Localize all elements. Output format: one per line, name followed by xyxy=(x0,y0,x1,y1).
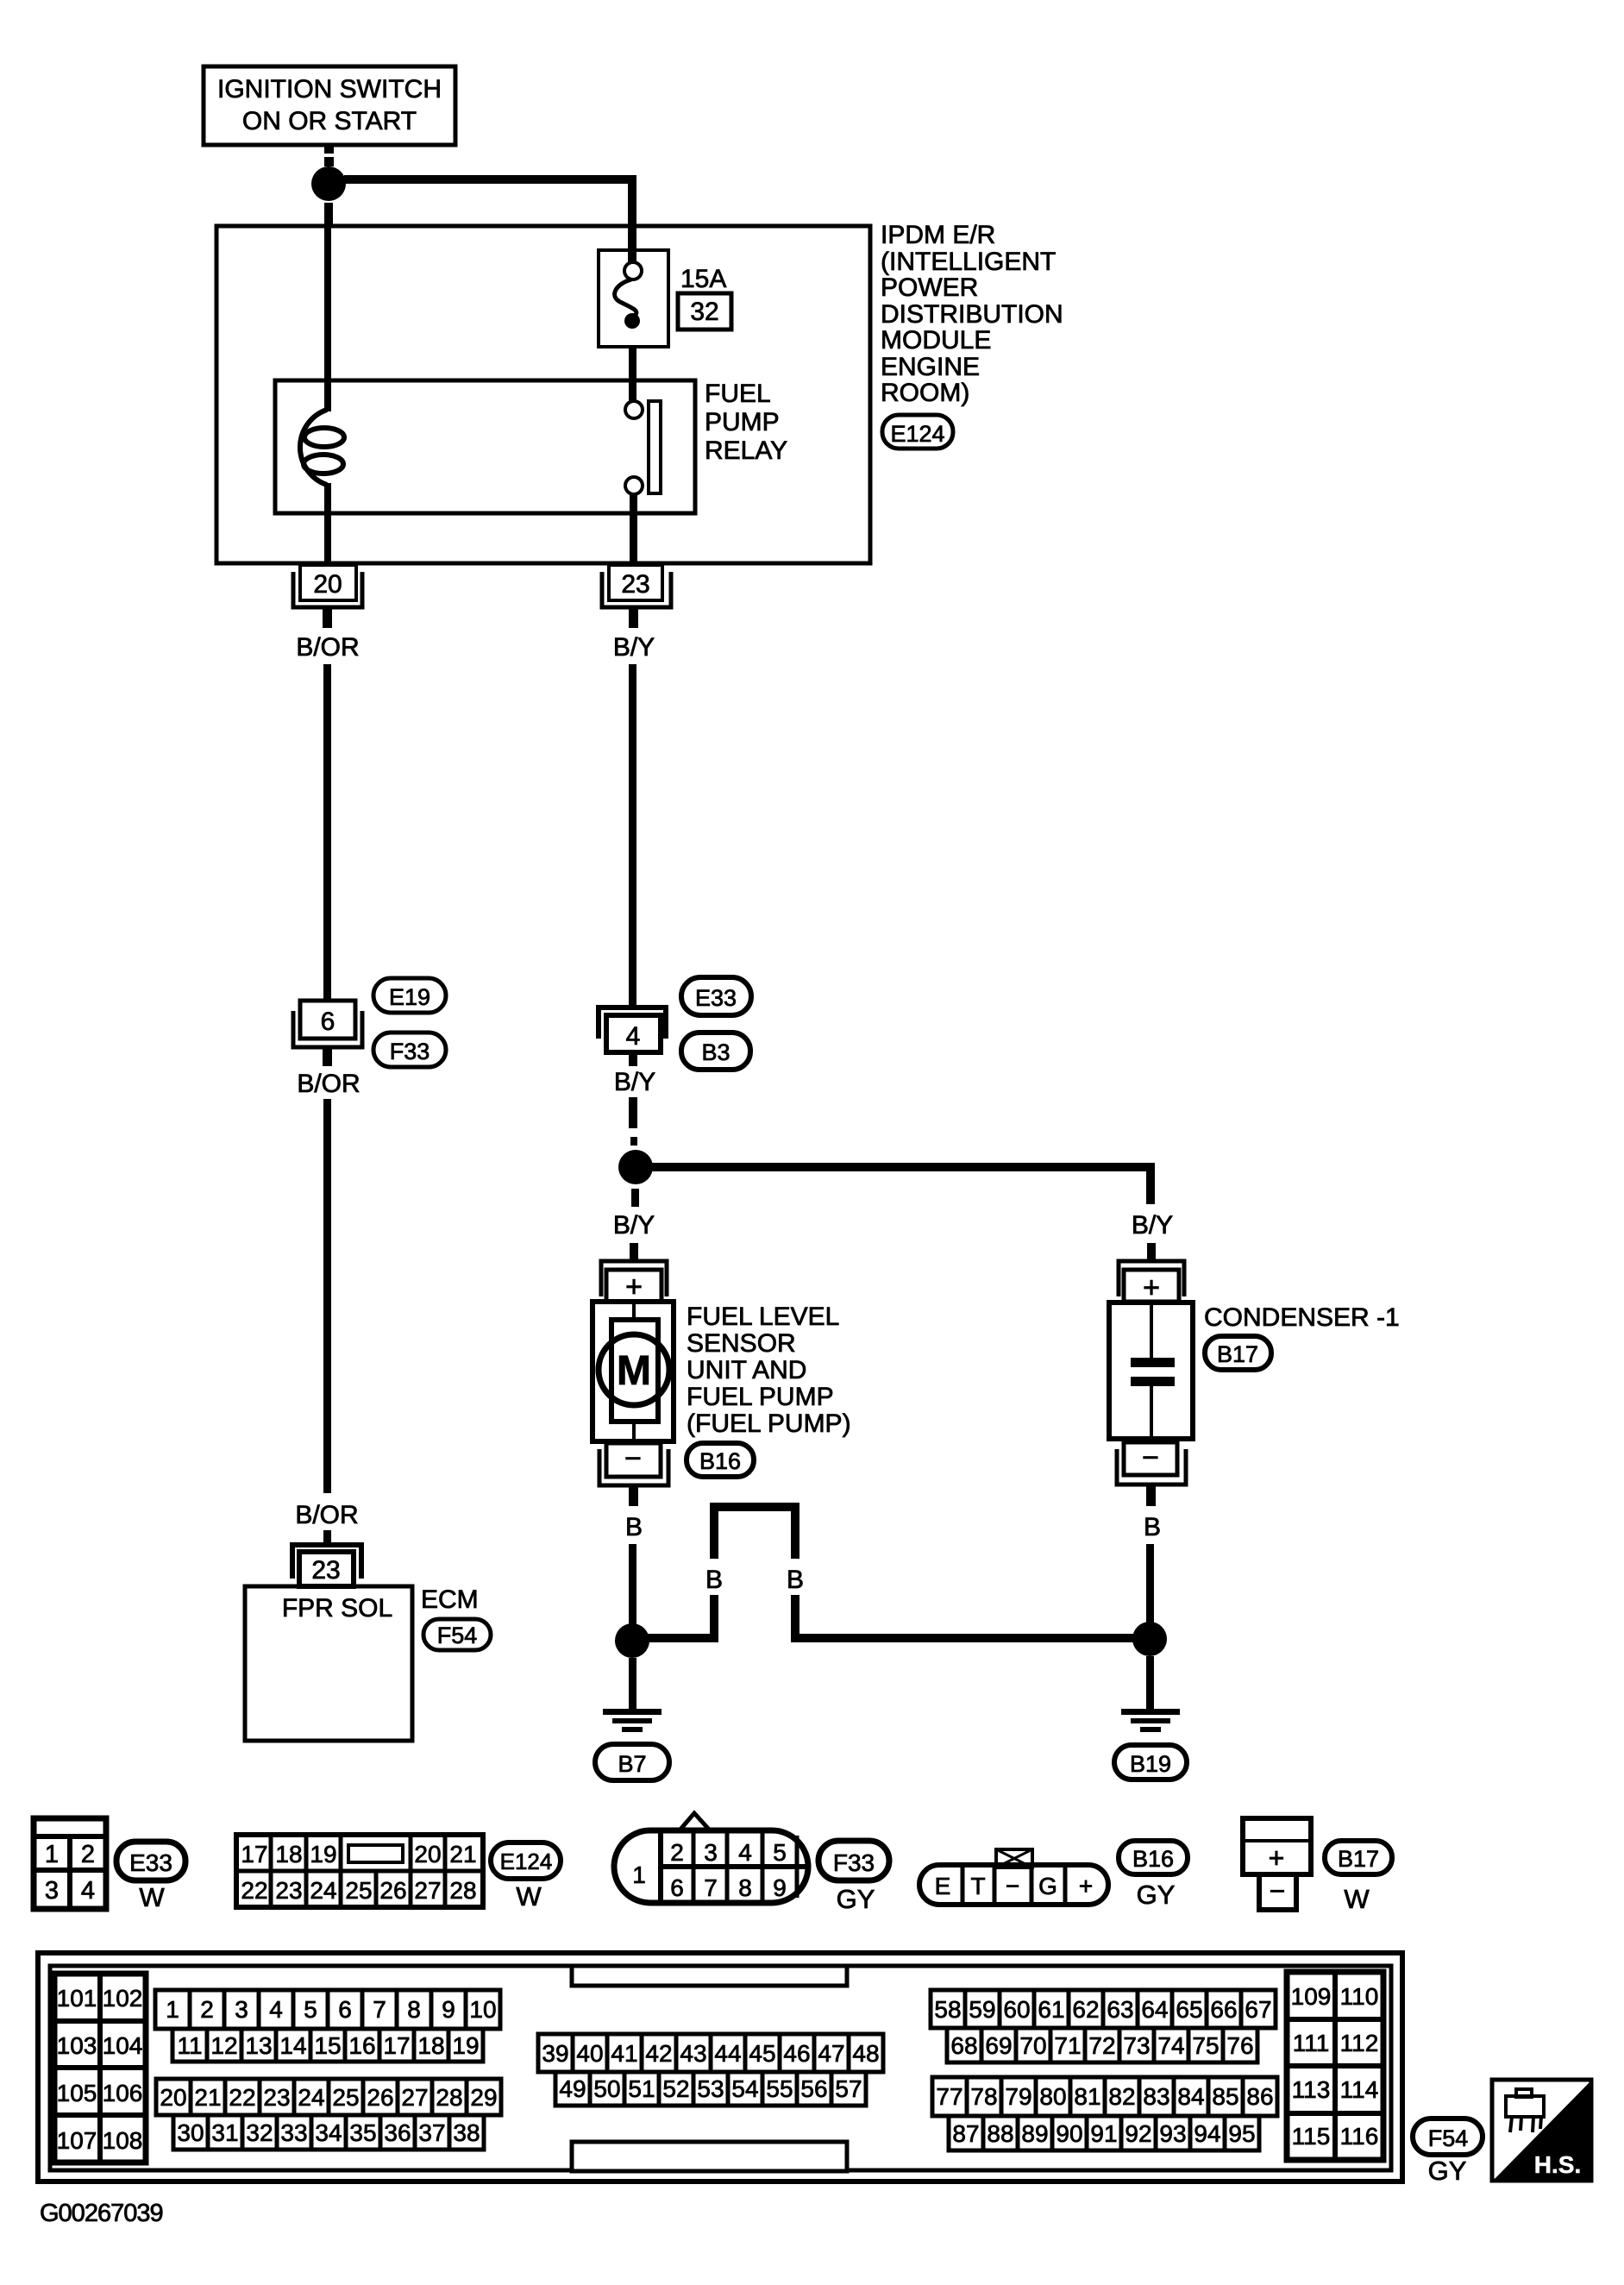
svg-text:11: 11 xyxy=(177,2032,202,2059)
svg-text:59: 59 xyxy=(969,1996,995,2023)
wire stub below pin 20 xyxy=(323,607,332,628)
wire stub below connector 4 xyxy=(629,1052,637,1066)
svg-text:CONDENSER -1: CONDENSER -1 xyxy=(1204,1303,1400,1332)
connector oval E19 xyxy=(373,978,446,1013)
F54 pins 30-38 xyxy=(173,2115,484,2150)
svg-text:56: 56 xyxy=(800,2075,827,2102)
svg-text:12: 12 xyxy=(210,2032,237,2059)
svg-text:36: 36 xyxy=(384,2119,411,2146)
svg-text:W: W xyxy=(1344,1884,1370,1914)
fuse 15A (32) xyxy=(599,250,668,347)
svg-text:38: 38 xyxy=(453,2119,480,2146)
svg-text:46: 46 xyxy=(783,2040,810,2067)
wire: relay coil to pin 20 xyxy=(324,513,331,565)
connector face B16 (E T - G +) xyxy=(919,1849,1108,1905)
svg-text:110: 110 xyxy=(1340,1983,1379,2010)
svg-text:−: − xyxy=(1270,1875,1286,1906)
svg-text:10: 10 xyxy=(469,1996,496,2023)
connector face oval F33 xyxy=(818,1841,889,1914)
svg-text:17: 17 xyxy=(241,1841,267,1868)
svg-text:G: G xyxy=(1038,1873,1057,1899)
wire label B/Y (condenser) xyxy=(1132,1211,1173,1240)
svg-text:B/Y: B/Y xyxy=(613,633,655,662)
svg-text:4: 4 xyxy=(738,1839,752,1866)
svg-text:4: 4 xyxy=(269,1996,283,2023)
svg-text:19: 19 xyxy=(310,1841,336,1868)
svg-text:105: 105 xyxy=(57,2080,97,2106)
wire: junction A down to IPDM E/R xyxy=(324,203,333,227)
ECM box xyxy=(245,1586,412,1741)
F54 pins 11-19 xyxy=(172,2029,483,2062)
svg-text:9: 9 xyxy=(773,1874,787,1901)
ground jumper loop (n shape) xyxy=(710,1507,799,1642)
svg-text:44: 44 xyxy=(714,2040,741,2067)
svg-text:FUEL: FUEL xyxy=(705,380,771,408)
F54 pins 87-95 xyxy=(949,2116,1259,2150)
wire label B/Y (mid) xyxy=(614,1068,655,1096)
svg-text:E33: E33 xyxy=(129,1849,172,1876)
svg-text:71: 71 xyxy=(1054,2032,1081,2059)
svg-text:80: 80 xyxy=(1039,2083,1066,2110)
svg-text:B: B xyxy=(1144,1513,1161,1541)
svg-text:5: 5 xyxy=(304,1996,317,2023)
condenser + terminal xyxy=(1119,1261,1184,1304)
wire label B/Y (upper) xyxy=(613,633,655,662)
wire label B (pump) xyxy=(625,1513,643,1541)
svg-text:53: 53 xyxy=(697,2075,724,2102)
connector face oval B17 xyxy=(1325,1841,1392,1914)
svg-text:2: 2 xyxy=(670,1839,684,1866)
wire: IPDM top to relay coil xyxy=(324,228,331,382)
svg-text:72: 72 xyxy=(1088,2032,1115,2059)
svg-text:81: 81 xyxy=(1074,2083,1100,2110)
svg-text:ECM: ECM xyxy=(421,1585,479,1614)
svg-text:34: 34 xyxy=(315,2119,342,2146)
svg-text:30: 30 xyxy=(177,2119,204,2146)
junction dot (B7 ground) xyxy=(615,1623,649,1658)
svg-text:35: 35 xyxy=(349,2119,376,2146)
svg-text:87: 87 xyxy=(952,2120,979,2147)
condenser body (B17) xyxy=(1109,1303,1193,1439)
connector face E124 (17-28) xyxy=(236,1835,483,1907)
svg-text:111: 111 xyxy=(1293,2030,1330,2056)
figure number xyxy=(40,2200,163,2227)
F54 pins 101-108 xyxy=(54,1974,146,2163)
svg-text:23: 23 xyxy=(275,1877,302,1904)
wire: pin 20 to connector 6 xyxy=(323,664,331,1001)
junction dot (B19 ground) xyxy=(1132,1622,1167,1656)
svg-text:85: 85 xyxy=(1212,2083,1238,2110)
ground name oval B19 xyxy=(1114,1745,1187,1780)
ECM label xyxy=(421,1585,479,1614)
svg-text:45: 45 xyxy=(749,2040,775,2067)
svg-text:67: 67 xyxy=(1245,1996,1271,2023)
connector oval B17 (component) xyxy=(1205,1336,1271,1370)
wire: connector 4 to junction B (dashed) xyxy=(629,1097,637,1146)
connector oval F54 (ECM) xyxy=(423,1619,491,1650)
svg-text:5: 5 xyxy=(773,1839,787,1866)
svg-text:FUEL PUMP: FUEL PUMP xyxy=(687,1383,834,1411)
svg-text:29: 29 xyxy=(470,2084,497,2111)
svg-text:T: T xyxy=(970,1873,985,1899)
svg-text:−: − xyxy=(624,1442,642,1475)
svg-text:28: 28 xyxy=(449,1877,476,1904)
svg-text:20: 20 xyxy=(414,1841,441,1868)
svg-text:26: 26 xyxy=(379,1877,406,1904)
svg-text:+: + xyxy=(1143,1271,1160,1304)
svg-text:78: 78 xyxy=(970,2083,997,2110)
svg-text:102: 102 xyxy=(103,1985,143,2012)
svg-text:107: 107 xyxy=(57,2127,97,2154)
svg-text:F33: F33 xyxy=(833,1849,875,1876)
svg-text:63: 63 xyxy=(1107,1996,1133,2023)
wire: ignition switch to junction A xyxy=(324,145,334,166)
svg-text:B/OR: B/OR xyxy=(295,1501,358,1529)
svg-text:2: 2 xyxy=(200,1996,214,2023)
svg-text:21: 21 xyxy=(449,1841,476,1868)
F54 pins 77-86 xyxy=(932,2077,1277,2116)
wire stub below pump xyxy=(629,1485,638,1506)
svg-text:7: 7 xyxy=(373,1996,386,2023)
svg-text:ON OR START: ON OR START xyxy=(242,107,417,135)
svg-text:9: 9 xyxy=(442,1996,455,2023)
fuel pump relay box xyxy=(275,380,695,513)
svg-text:52: 52 xyxy=(662,2075,689,2102)
connector oval B16 (component) xyxy=(687,1443,754,1477)
svg-text:B/Y: B/Y xyxy=(613,1211,655,1240)
svg-text:104: 104 xyxy=(103,2032,143,2059)
svg-text:95: 95 xyxy=(1228,2120,1255,2147)
svg-text:75: 75 xyxy=(1192,2032,1219,2059)
svg-text:84: 84 xyxy=(1177,2083,1204,2110)
svg-text:20: 20 xyxy=(160,2084,186,2111)
svg-text:B7: B7 xyxy=(618,1751,646,1777)
svg-text:18: 18 xyxy=(417,2032,444,2059)
svg-text:13: 13 xyxy=(245,2032,272,2059)
svg-text:23: 23 xyxy=(263,2084,290,2111)
svg-text:112: 112 xyxy=(1340,2030,1379,2056)
capacitor plates xyxy=(1131,1358,1175,1386)
svg-text:B16: B16 xyxy=(699,1448,741,1474)
svg-text:92: 92 xyxy=(1125,2120,1151,2147)
svg-text:23: 23 xyxy=(311,1556,340,1585)
condenser label xyxy=(1204,1303,1400,1332)
svg-text:47: 47 xyxy=(818,2040,844,2067)
svg-text:B/OR: B/OR xyxy=(297,1070,360,1098)
wire: pin 23 to connector 4 xyxy=(629,664,636,1007)
svg-text:1: 1 xyxy=(166,1996,179,2023)
svg-text:GY: GY xyxy=(1137,1880,1176,1910)
svg-text:57: 57 xyxy=(835,2075,862,2102)
connector oval F33 (inline) xyxy=(373,1033,446,1067)
wire dash below junction B xyxy=(631,1189,639,1207)
svg-text:32: 32 xyxy=(690,298,718,326)
svg-text:W: W xyxy=(139,1882,165,1912)
F54 pins 109-116 xyxy=(1287,1972,1383,2160)
connector oval E124 (IPDM) xyxy=(882,415,953,449)
wire: connector 6 to ECM pin 23 xyxy=(323,1099,331,1545)
svg-text:27: 27 xyxy=(401,2084,428,2111)
svg-text:4: 4 xyxy=(81,1877,95,1905)
svg-text:14: 14 xyxy=(279,2032,306,2059)
fuel pump + terminal xyxy=(601,1261,667,1303)
inline connector 6 (E19/F33) xyxy=(293,1001,362,1047)
fuel pump motor M xyxy=(599,1334,669,1405)
connector face oval E33 xyxy=(116,1842,185,1912)
IPDM pin 20 connector xyxy=(293,565,362,607)
svg-text:82: 82 xyxy=(1108,2083,1135,2110)
IPDM E/R label block xyxy=(881,221,1063,407)
svg-text:28: 28 xyxy=(436,2084,462,2111)
ground symbol B7 xyxy=(603,1709,662,1732)
svg-text:H.S.: H.S. xyxy=(1534,2151,1581,2178)
svg-text:B/OR: B/OR xyxy=(296,633,359,662)
svg-text:43: 43 xyxy=(680,2040,706,2067)
svg-text:24: 24 xyxy=(298,2084,324,2111)
F54 pins 58-67 xyxy=(931,1990,1276,2028)
wire label B/Y (pump) xyxy=(613,1211,655,1240)
svg-text:7: 7 xyxy=(704,1874,718,1901)
svg-text:51: 51 xyxy=(628,2075,655,2102)
svg-text:41: 41 xyxy=(611,2040,637,2067)
svg-text:22: 22 xyxy=(229,2084,255,2111)
svg-text:26: 26 xyxy=(367,2084,393,2111)
svg-text:E33: E33 xyxy=(695,985,737,1011)
svg-text:103: 103 xyxy=(57,2032,97,2059)
F54 pins 68-76 xyxy=(947,2028,1257,2062)
svg-text:F54: F54 xyxy=(1428,2125,1469,2151)
condenser - terminal xyxy=(1117,1441,1186,1485)
svg-text:40: 40 xyxy=(576,2040,603,2067)
svg-text:18: 18 xyxy=(275,1841,302,1868)
wire dash above condenser + terminal xyxy=(1147,1243,1156,1259)
wire stub below connector 6 xyxy=(323,1047,332,1066)
svg-text:114: 114 xyxy=(1340,2076,1379,2103)
IPDM E/R outer box xyxy=(216,226,870,563)
F54 pins 49-57 xyxy=(555,2072,866,2106)
svg-text:MODULE: MODULE xyxy=(881,326,991,355)
svg-text:B/Y: B/Y xyxy=(1132,1211,1173,1240)
svg-text:68: 68 xyxy=(950,2032,977,2059)
junction dot A xyxy=(311,166,346,201)
svg-text:17: 17 xyxy=(383,2032,410,2059)
svg-text:B17: B17 xyxy=(1217,1341,1258,1367)
svg-text:25: 25 xyxy=(345,1877,372,1904)
svg-text:(INTELLIGENT: (INTELLIGENT xyxy=(881,248,1056,276)
svg-text:GY: GY xyxy=(1428,2156,1467,2186)
svg-text:F33: F33 xyxy=(390,1039,430,1064)
svg-text:55: 55 xyxy=(766,2075,793,2102)
svg-text:77: 77 xyxy=(936,2083,962,2110)
connector face oval E124 xyxy=(491,1842,561,1911)
wire label B/OR (lower) xyxy=(297,1070,360,1098)
svg-text:116: 116 xyxy=(1340,2123,1379,2150)
wire: junction to ground B7 xyxy=(629,1658,636,1711)
svg-text:88: 88 xyxy=(987,2120,1013,2147)
svg-text:64: 64 xyxy=(1141,1996,1168,2023)
F54 pins 1-10 xyxy=(155,1990,500,2029)
ground symbol B19 xyxy=(1121,1709,1180,1732)
connector face F33 (1-9 pill) xyxy=(614,1813,808,1903)
connector face E33 (2x2) xyxy=(34,1818,106,1909)
fuel pump label xyxy=(687,1303,851,1438)
svg-text:115: 115 xyxy=(1292,2123,1331,2150)
svg-text:E: E xyxy=(935,1873,951,1899)
wire: junction B to condenser branch xyxy=(649,1167,1151,1204)
svg-text:3: 3 xyxy=(45,1877,59,1905)
svg-text:G00267039: G00267039 xyxy=(40,2200,163,2227)
ECM pin 23 connector xyxy=(292,1545,361,1586)
wire label B (loop right) xyxy=(787,1566,804,1594)
svg-text:50: 50 xyxy=(593,2075,620,2102)
svg-text:90: 90 xyxy=(1056,2120,1082,2147)
svg-text:FPR SOL: FPR SOL xyxy=(282,1594,392,1623)
svg-text:UNIT AND: UNIT AND xyxy=(687,1356,806,1384)
wire label B/OR (upper) xyxy=(296,633,359,662)
svg-text:GY: GY xyxy=(837,1884,875,1914)
svg-text:15A: 15A xyxy=(680,265,726,293)
svg-text:B3: B3 xyxy=(701,1039,730,1065)
svg-text:109: 109 xyxy=(1291,1983,1332,2010)
fuse value label 15A xyxy=(680,265,726,293)
svg-text:ENGINE: ENGINE xyxy=(881,353,980,381)
svg-text:69: 69 xyxy=(985,2032,1012,2059)
wire label B/OR (ECM) xyxy=(295,1501,358,1529)
connector face oval B16 xyxy=(1119,1841,1188,1910)
relay coil xyxy=(300,382,344,513)
svg-text:4: 4 xyxy=(626,1022,641,1051)
svg-text:B17: B17 xyxy=(1338,1846,1379,1872)
F54 keyway bottom xyxy=(572,2142,847,2171)
wire dash above pump + terminal xyxy=(630,1243,638,1259)
svg-text:32: 32 xyxy=(246,2119,273,2146)
svg-text:+: + xyxy=(625,1271,643,1303)
svg-text:83: 83 xyxy=(1143,2083,1169,2110)
svg-text:94: 94 xyxy=(1194,2120,1220,2147)
svg-text:70: 70 xyxy=(1019,2032,1046,2059)
svg-text:74: 74 xyxy=(1157,2032,1184,2059)
svg-text:25: 25 xyxy=(332,2084,359,2111)
svg-text:15: 15 xyxy=(314,2032,341,2059)
svg-text:B16: B16 xyxy=(1132,1846,1174,1872)
svg-text:W: W xyxy=(516,1881,542,1911)
F54 keyway top xyxy=(572,1966,847,1986)
svg-text:(FUEL PUMP): (FUEL PUMP) xyxy=(687,1409,851,1438)
svg-text:19: 19 xyxy=(452,2032,479,2059)
svg-text:101: 101 xyxy=(57,1985,97,2012)
svg-text:61: 61 xyxy=(1038,1996,1064,2023)
svg-text:+: + xyxy=(1269,1842,1285,1874)
wire: condenser to ground junction xyxy=(1146,1544,1154,1623)
svg-text:65: 65 xyxy=(1176,1996,1202,2023)
svg-text:37: 37 xyxy=(418,2119,445,2146)
ground name oval B7 xyxy=(595,1744,669,1780)
svg-text:21: 21 xyxy=(194,2084,221,2111)
svg-text:27: 27 xyxy=(414,1877,441,1904)
svg-text:106: 106 xyxy=(103,2080,143,2106)
svg-text:3: 3 xyxy=(235,1996,248,2023)
svg-text:86: 86 xyxy=(1246,2083,1273,2110)
svg-text:B: B xyxy=(787,1566,804,1594)
connector face B17 (+/-) xyxy=(1243,1818,1311,1910)
fuel pump - terminal xyxy=(599,1442,668,1485)
svg-text:M: M xyxy=(617,1348,651,1394)
svg-text:PUMP: PUMP xyxy=(705,408,780,436)
svg-text:8: 8 xyxy=(407,1996,421,2023)
power source box: IGNITION SWITCH ON OR START xyxy=(204,66,455,145)
svg-text:62: 62 xyxy=(1072,1996,1099,2023)
svg-text:16: 16 xyxy=(348,2032,375,2059)
svg-text:−: − xyxy=(1142,1441,1159,1474)
svg-text:89: 89 xyxy=(1021,2120,1048,2147)
svg-text:6: 6 xyxy=(670,1874,684,1901)
relay label xyxy=(705,380,787,465)
svg-text:3: 3 xyxy=(704,1839,718,1866)
svg-text:IPDM E/R: IPDM E/R xyxy=(881,221,995,249)
relay contact xyxy=(625,401,661,494)
svg-text:DISTRIBUTION: DISTRIBUTION xyxy=(881,300,1063,329)
inline connector 4 (E33/B3) xyxy=(599,1008,666,1052)
F54 pins 39-48 xyxy=(538,2034,883,2072)
svg-text:76: 76 xyxy=(1226,2032,1253,2059)
svg-text:IGNITION SWITCH: IGNITION SWITCH xyxy=(217,75,442,104)
svg-text:113: 113 xyxy=(1292,2076,1331,2103)
svg-text:49: 49 xyxy=(559,2075,586,2102)
svg-text:79: 79 xyxy=(1005,2083,1031,2110)
svg-text:6: 6 xyxy=(338,1996,352,2023)
svg-text:E19: E19 xyxy=(389,984,430,1010)
svg-text:108: 108 xyxy=(103,2127,143,2154)
svg-text:B/Y: B/Y xyxy=(614,1068,655,1096)
wire stub below condenser xyxy=(1146,1485,1156,1506)
wire: loop to ground junction B19 xyxy=(791,1634,1136,1642)
svg-text:60: 60 xyxy=(1003,1996,1030,2023)
wire label B (condenser) xyxy=(1144,1513,1161,1541)
svg-text:RELAY: RELAY xyxy=(705,436,787,465)
svg-text:54: 54 xyxy=(731,2075,758,2102)
svg-text:66: 66 xyxy=(1210,1996,1237,2023)
wire: junction A to fuse (horizontal then down) xyxy=(344,179,632,263)
svg-text:22: 22 xyxy=(241,1877,267,1904)
svg-text:ROOM): ROOM) xyxy=(881,379,969,407)
junction dot B xyxy=(618,1150,653,1184)
connector face oval F54 xyxy=(1413,2119,1483,2186)
svg-text:B: B xyxy=(705,1566,723,1594)
svg-text:91: 91 xyxy=(1090,2120,1117,2147)
svg-text:+: + xyxy=(1079,1873,1093,1899)
connector oval B3 xyxy=(681,1033,750,1070)
fuel pump body (B16) xyxy=(593,1302,674,1441)
wire stub below pin 23 xyxy=(629,607,638,628)
svg-text:33: 33 xyxy=(280,2119,307,2146)
wire: pump to ground junction xyxy=(629,1544,636,1626)
wire label B (loop left) xyxy=(705,1566,723,1594)
connector face F54 outer box xyxy=(38,1953,1402,2181)
svg-text:58: 58 xyxy=(934,1996,961,2023)
wire: ground junction B7 to loop xyxy=(647,1634,718,1642)
svg-text:POWER: POWER xyxy=(881,273,978,302)
svg-text:31: 31 xyxy=(211,2119,238,2146)
H.S. logo xyxy=(1492,2080,1591,2181)
svg-text:73: 73 xyxy=(1123,2032,1150,2059)
svg-text:1: 1 xyxy=(45,1841,59,1868)
IPDM pin 23 connector xyxy=(602,565,671,607)
F54 pins 20-29 xyxy=(156,2079,501,2115)
svg-text:B19: B19 xyxy=(1130,1751,1171,1777)
svg-text:24: 24 xyxy=(310,1877,336,1904)
svg-text:E124: E124 xyxy=(500,1849,553,1874)
svg-text:SENSOR: SENSOR xyxy=(687,1329,796,1358)
